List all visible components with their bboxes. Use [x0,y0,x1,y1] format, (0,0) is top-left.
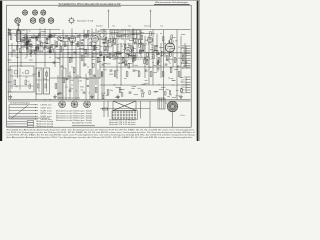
svg-text:EF85: EF85 [70,58,74,60]
tube V5 EM80 [147,37,152,42]
wire stub s53 [153,64,156,66]
wire stub u11 [154,91,157,93]
wire stub s27 [108,39,110,41]
IF can B2 interior [38,70,40,92]
IF transformer can B3 [44,68,50,94]
trimmer cap TC4 [46,46,49,49]
svg-text:5 Ohm: 5 Ohm [180,115,185,117]
tube V2 EF85 [92,36,99,43]
top-right header rule [154,3,190,5]
wire double vertical [163,30,165,100]
svg-text:5k: 5k [170,95,172,97]
wire vertical net v23 [107,40,109,57]
IF transformer can B1 [10,66,34,92]
UKW box B8 [98,31,106,39]
ground symbol 5 [179,95,183,99]
ground symbol 2 [53,95,57,99]
svg-text:0,25: 0,25 [133,58,136,60]
wire stub ul5 [49,50,52,52]
resistor RY2 [153,55,155,59]
ground symbol 3 [90,95,94,99]
junction node j3 [100,78,101,79]
wire vertical net v10 [54,40,56,67]
svg-text:5k: 5k [35,46,37,48]
svg-text:30p: 30p [14,35,17,37]
resistor R42 [119,88,121,93]
wire stub ul3 [49,47,52,49]
ground symbol 1 [9,95,13,99]
wire stub t20 [124,78,126,80]
svg-text:EL84: EL84 [39,51,43,53]
svg-text:5k: 5k [62,50,64,52]
wire stub s34 [16,56,19,58]
svg-text:Osz.: Osz. [160,26,164,28]
wire vertical low lv9 [93,74,95,100]
resistor RUL7 [49,48,51,52]
trimmer cap TC3 [49,34,52,37]
capacitor C11 [102,64,105,65]
oscillator box B7 [132,30,140,39]
resistor R24 [122,58,124,63]
wire vertical net v38 [168,40,170,63]
wire stub s48 [114,38,117,40]
wire stub t9 [138,87,141,89]
main title underline [58,5,121,7]
tube socket view 1 [59,101,66,108]
antenna terminal 1 [9,30,11,32]
resistor R9 [60,47,62,52]
wire stub s46 [104,62,107,64]
wire stub u3 [176,89,179,91]
wire stub s4 [101,39,106,41]
junction node j6 [72,85,73,86]
wire vertical net v5 [30,43,32,57]
svg-text:100p: 100p [145,60,149,62]
svg-text:100p: 100p [169,59,173,61]
svg-text:0,5M: 0,5M [107,64,111,66]
resistor R39 [182,56,184,61]
resistor R21 [109,54,111,59]
tube base diagram row1 ECH81 [22,9,27,15]
resistor RX5 [157,61,159,65]
wire stub t6 [180,81,182,83]
wire stub s9 [92,59,95,61]
svg-text:UKW ein: UKW ein [41,105,52,107]
wire vertical low lv8 [89,76,91,100]
trimmer cap TC8 [28,39,31,42]
wire stub s2 [58,33,61,35]
tube base diagram row2 EABC80 [39,17,45,23]
wire stub s12 [181,33,185,35]
wire stub t11 [180,77,184,79]
capacitor CZ6 [92,53,94,54]
oscillator box B6 [121,30,130,39]
wave switch contact table S1 [9,104,38,119]
wire vertical net v30 [136,34,138,58]
svg-text:0,25: 0,25 [67,53,70,55]
resistor RZ10 [52,49,54,53]
resistor R31 [150,72,152,77]
svg-text:100p: 100p [68,76,72,78]
resistor R5 [37,45,39,50]
wire vertical net v21 [99,34,101,79]
wire vertical net v24 [112,36,114,57]
ground symbol 4 [116,95,120,99]
junction node j16 [27,45,28,46]
resistor R8 [56,42,58,47]
svg-text:0,1: 0,1 [22,72,24,74]
svg-text:25µ: 25µ [65,79,68,81]
capacitor CX6 [144,57,147,58]
svg-text:EF85: EF85 [89,38,93,40]
capacitor CL4 [66,79,68,80]
wire vertical net v19 [91,29,93,100]
svg-text:50k: 50k [59,37,62,39]
resistor RX21 [100,52,102,56]
resistor R3 [28,42,30,47]
svg-text:470: 470 [25,77,28,79]
resistor RX6 [141,35,143,39]
capacitor CX14 [103,43,106,44]
wire stub t4 [161,87,165,89]
svg-text:2k: 2k [169,63,171,65]
junction node j8 [55,62,56,63]
capacitor C22 [129,92,132,93]
resistor RZ7 [26,42,28,46]
capacitor C6 [53,62,56,63]
junction node j4 [88,45,89,46]
svg-text:Skalenlampe 7 V 0,3 A: Skalenlampe 7 V 0,3 A [77,19,94,22]
resistor RUL1 [37,48,39,52]
wire dropper 2 [140,101,142,119]
svg-text:5k: 5k [106,52,108,54]
resistor R27 [134,56,136,61]
svg-text:100p: 100p [43,79,47,81]
resistor RX16 [127,53,129,57]
wire stub s56 [57,57,60,59]
junction node j1 [100,33,101,34]
svg-text:2k: 2k [121,46,123,48]
wire vertical net v33 [148,36,150,85]
svg-text:5k: 5k [178,47,180,49]
antenna terminal 2 [9,33,11,35]
junction node j23 [45,99,46,100]
svg-text:5k: 5k [42,35,44,37]
svg-text:5k: 5k [147,37,149,39]
svg-text:Bandbreite 9 kHz: Bandbreite 9 kHz [72,122,92,125]
wire stub s1 [134,64,138,66]
resistor R10 [64,37,69,39]
svg-text:TB: TB [183,51,185,53]
wire stub u5 [115,96,119,98]
resistor R40 [95,88,97,93]
resistor R43 [55,84,57,89]
resistor RX2 [171,35,173,39]
capacitor CZ8 [77,35,79,36]
trimmer cap TC9 [36,46,39,49]
resistor RZ8 [85,34,87,38]
capacitor C9 [84,64,87,65]
wire stub s28 [128,54,133,56]
wire stub s31 [52,32,57,34]
resistor RX17 [150,32,152,36]
resistor R36 [170,68,172,73]
junction node j9 [50,57,51,58]
wire stub u4 [166,89,169,91]
svg-text:EF85: EF85 [113,59,117,61]
IF can B3 interior [45,70,47,92]
resistor RX23 [147,52,149,56]
svg-text:1n: 1n [69,38,71,40]
wire vertical net v28 [128,43,130,57]
wire vertical net v31 [140,30,142,58]
capacitor CL3 [59,93,61,94]
resistor RW5 [181,88,183,92]
wire stub t21 [144,83,148,85]
left rail tap 6 [8,82,12,83]
resistor RY7 [103,56,105,60]
resistor R35 [166,56,168,61]
resistor RX19 [170,40,172,44]
wire vertical net v16 [79,34,81,79]
wire pair run 2 [22,36,80,38]
detector module box B4 [118,44,152,59]
svg-text:1n: 1n [29,49,31,51]
capacitor CX10 [114,43,117,44]
wire stub ul6 [46,43,49,45]
resistor RX8 [130,52,132,56]
terminal strip ST2 [186,77,191,93]
page background [0,0,200,141]
trimmer cap TC6 [38,33,41,36]
tube base diagram row2 EL84 [48,17,54,23]
dial lamp symbol [68,17,75,24]
svg-text:2k: 2k [88,72,90,74]
svg-text:Erde: Erde [181,48,184,50]
junction node j11 [84,78,85,79]
dial pointer line 1 [108,10,110,29]
svg-text:0,1: 0,1 [63,41,65,43]
wire stub s24 [83,49,87,51]
svg-text:100p: 100p [118,63,122,65]
resistor R11 [69,58,71,63]
right edge grey margin [198,0,200,141]
antenna coil L1 [17,24,21,41]
wire vertical net v18 [87,34,89,58]
wire stub s39 [129,39,134,41]
wire stub s40 [150,49,153,51]
wire vertical net v2 [17,29,19,79]
capacitor C3 [21,46,24,47]
resistor R20 [105,38,107,43]
svg-text:30p: 30p [47,51,50,53]
wire vertical net v15 [75,43,77,100]
oscillator box B5 [110,30,119,39]
output transformer TR2 [158,98,165,109]
svg-text:0,25: 0,25 [52,49,55,51]
junction node j7 [121,85,122,86]
wire stub s10 [22,52,24,54]
capacitor CL2 [87,86,89,87]
svg-text:50k: 50k [124,34,127,36]
resistor RX15 [139,39,141,43]
wire stub u9 [116,96,119,98]
resistor R7 [50,35,55,37]
wire vertical net v11 [59,43,61,100]
svg-text:30p: 30p [65,86,68,88]
capacitor CZ1 [81,45,83,46]
capacitor C16 [157,68,160,69]
wire vertical net v8 [44,29,46,68]
svg-text:LW ein: LW ein [41,107,52,109]
wire vertical net v3 [20,30,22,68]
resistor RX24 [162,51,164,55]
svg-text:30p: 30p [160,55,163,57]
wire stub s50 [181,62,184,64]
resistor RZ11 [64,43,66,47]
resistor RY1 [132,58,134,62]
trimmer cap TC10 [49,35,52,38]
wire pair run 1 [22,35,96,37]
top edge grey line [0,0,200,2]
trimmer cap TC1 [38,35,41,38]
wire stub u6 [134,94,138,96]
junction node j5 [72,67,73,68]
svg-text:Demod.: Demod. [144,26,150,28]
wire stub s13 [114,58,117,60]
resistor R4 [32,36,37,38]
wire vertical net v1 [11,43,13,57]
wire bottom-left bus [8,117,50,119]
resistor RY3 [115,52,117,56]
wire stub s8 [41,31,46,33]
wire vertical net v29 [132,29,134,68]
resistor RZ2 [36,37,38,41]
junction node j18 [129,45,130,46]
wire vertical net v41 [180,36,182,78]
trimmer cap TC7 [24,45,27,48]
svg-text:EL84: EL84 [102,93,106,95]
resistor RZ3 [26,46,28,50]
wire upper-left run [8,28,60,30]
wire stub s25 [166,59,168,61]
capacitor C21 [83,92,86,93]
wire stub t18 [172,79,176,81]
bandwidth note [72,122,95,126]
wire vertical net v20 [95,29,97,86]
resistor RUL6 [49,50,51,54]
svg-text:100p: 100p [95,53,99,55]
svg-text:8µ: 8µ [58,93,60,95]
resistor R16 [89,70,91,75]
tube base diagram row1 EBF80 [32,9,37,15]
resistor RY6 [125,61,127,65]
wire vertical net v34 [152,30,154,86]
wire vertical net v37 [164,43,166,57]
wire vertical net v22 [103,29,105,100]
resistor RUL9 [41,42,43,46]
variable capacitor C32 [46,36,50,40]
resistor RX18 [132,47,134,51]
wire speaker drop [172,112,174,127]
svg-text:470: 470 [175,41,178,43]
wire vertical net v42 [184,43,186,67]
svg-text:Röhrensockel von unten: Röhrensockel von unten [58,96,80,99]
wire stub ul2 [51,44,54,46]
resistor RW2 [169,91,171,95]
svg-text:25µ: 25µ [15,86,18,88]
wire stub s20 [112,40,115,42]
wire transformer feed 2 [107,101,109,117]
left rail tap 4 [8,60,12,61]
wire chassis bus 2 [8,100,190,102]
wire stub t19 [174,68,178,70]
wire stub s54 [104,43,109,45]
wire stub s32 [154,50,159,52]
svg-text:des Abendroth-Automatik-Superh: des Abendroth-Automatik-Superhet 3/54. D… [7,136,193,139]
capacitor C4 [32,50,35,51]
resistor RX3 [114,39,116,43]
svg-text:200: 200 [21,42,24,44]
svg-text:10k: 10k [93,33,96,35]
svg-text:5k: 5k [20,38,22,40]
svg-text:5n: 5n [81,37,83,39]
wire dropper [149,101,151,127]
resistor RX20 [157,51,159,55]
wire vertical net v32 [144,36,146,78]
wire stub s38 [125,60,128,62]
svg-text:0,1: 0,1 [126,53,128,55]
wire stub t13 [171,78,174,80]
svg-text:2k: 2k [89,93,91,95]
resistor RX1 [134,38,136,42]
tube base diagram row2 EF85 [30,17,36,23]
wire right low bus [100,84,191,86]
resistor R34 [162,72,164,77]
wire speaker link [165,102,167,104]
resistor RZ9 [27,48,29,52]
wire stub s60 [102,41,106,43]
wire stub u1 [155,91,159,93]
svg-text:10k: 10k [48,38,51,40]
right edge dark line [197,0,199,141]
svg-text:Osz.: Osz. [112,26,116,28]
resistor RZ6 [90,42,92,46]
border frame [7,5,192,127]
wire main mid bus [8,52,190,54]
wire vertical low lv1 [57,75,59,99]
svg-text:0,25: 0,25 [163,43,166,45]
capacitor CX3 [156,46,159,47]
wire stub s16 [116,51,120,53]
wire stub u12 [106,95,109,97]
connector row 1 [7,120,53,123]
resistor R37 [174,58,176,63]
resistor RW4 [121,93,123,97]
trimmer cap TC2 [26,40,29,43]
resistor R25 [126,72,128,77]
capacitor C8 [74,52,77,53]
svg-text:Westermann-Schaltungen: Westermann-Schaltungen [155,1,188,4]
wire stub s55 [97,61,102,63]
junction node j13 [113,57,114,58]
capacitor CZ3 [82,40,84,41]
wire vertical low lv4 [69,72,71,100]
wire vertical net v25 [116,40,118,78]
resistor RW6 [149,91,151,95]
svg-text:100p: 100p [28,44,32,46]
svg-text:Ratiodet.: Ratiodet. [96,25,103,28]
